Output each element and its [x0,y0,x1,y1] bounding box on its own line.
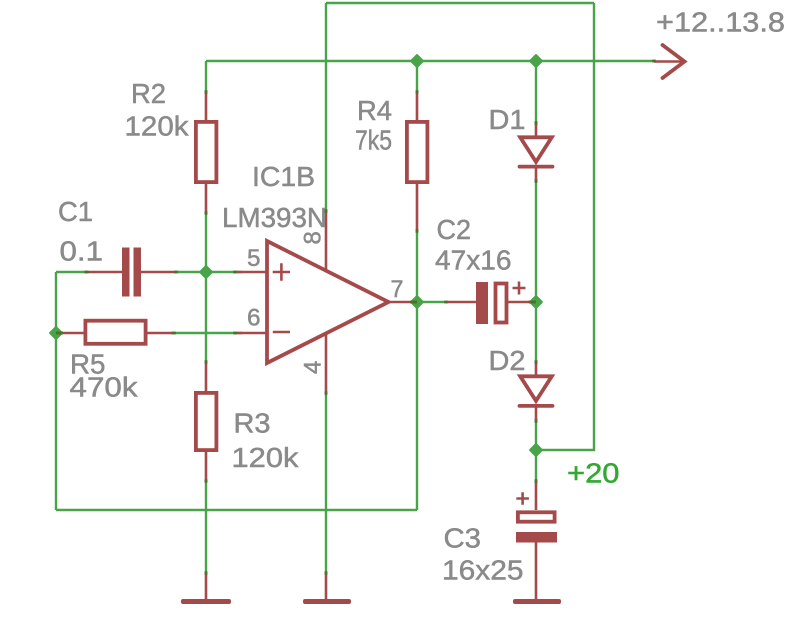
overlap dot C1 left pin end [85,271,89,274]
svg-text:5: 5 [247,245,261,272]
wire output node down to bottom wire [416,302,418,510]
svg-text:R4: R4 [357,95,392,126]
wire bottom feedback horizontal y=510 [56,509,417,511]
overlap band pin7 lead over junction [410,301,417,304]
ground symbol under R3 [205,573,208,600]
svg-text:6: 6 [247,305,261,332]
wire D2 bottom to +20 node [535,420,537,450]
svg-text:470k: 470k [70,372,139,403]
op-amp pin 6 lead [235,332,266,335]
junction node rail D1 [530,55,541,66]
svg-text:D1: D1 [489,104,526,135]
svg-text:8: 8 [300,231,327,244]
svg-text:47x16: 47x16 [435,245,512,276]
svg-text:C2: C2 [437,214,472,245]
capacitor C1 [87,271,175,274]
op-amp pin 8 lead [325,211,328,272]
wire C2 right to D node [528,301,536,303]
supply arrow +12..13.8 [654,60,684,63]
svg-text:120k: 120k [125,111,190,142]
wire R3 bottom to ground [205,481,207,574]
wire R4 top green segment [416,61,418,93]
wire C1 left to left vertical [56,271,86,273]
svg-text:7k5: 7k5 [355,125,392,156]
wire R4 bottom to output node [416,229,418,302]
wire R5 right lead to op-amp pin 6 [171,332,242,334]
wire D1 top green segment [535,61,537,124]
overlap band C2 lead over junction [529,301,536,304]
op-amp pin 7 lead [386,301,413,304]
junction node R2/C1/pin5 [200,266,211,277]
op-amp plus marking [273,263,290,281]
wire D1 bottom to C2 node [535,180,537,302]
svg-text:IC1B: IC1B [252,161,315,192]
overlap band R5 lead over junction [56,332,63,335]
junction node rail R4 [411,55,422,66]
svg-text:7: 7 [391,276,404,303]
svg-text:C1: C1 [58,196,93,227]
svg-text:C3: C3 [444,523,482,554]
junction node left R5 [50,327,61,338]
op-amp pin 5 lead [235,271,266,274]
wire +20 node down to C3 [535,450,537,483]
wire op-amp pin 4 to ground [325,393,327,574]
junction node +20 [530,444,541,455]
plus marking (C2) [513,282,526,295]
junction node output [411,296,422,307]
svg-text:LM393N: LM393N [222,202,327,233]
svg-text:4: 4 [300,361,327,374]
op-amp pin 4 lead [325,333,328,394]
resistor R4 [416,91,419,231]
op-amp IC1B [267,241,389,363]
wire node A to op-amp pin 5 [175,271,242,273]
svg-text:D2: D2 [489,345,526,376]
wire R2 top green segment [205,61,207,93]
svg-text:+20: +20 [567,458,620,489]
wire R2 bottom to node A [205,213,207,272]
capacitor C3 [535,481,538,601]
wire top horizontal from left vertical to right vertical [326,2,594,4]
wire right side vertical x=594 down then left to +20 node [540,3,594,450]
resistor R5 [57,332,174,335]
plus marking (C3) [516,492,529,505]
capacitor C2 [446,301,529,304]
wire left vertical x=56 down to bottom wire [55,272,57,510]
diode D2 [535,361,538,421]
wire supply rail y=61 [206,60,655,62]
svg-text:R2: R2 [131,78,166,109]
wire node A down to R3 [205,272,207,362]
resistor R2 [205,91,208,214]
resistor R3 [205,361,208,482]
svg-text:+12..13.8: +12..13.8 [656,7,785,38]
wire output node to C2 [417,301,447,303]
svg-text:R3: R3 [234,408,271,439]
wire C2 node down to D2 [535,302,537,363]
svg-text:120k: 120k [232,442,300,473]
svg-text:16x25: 16x25 [442,555,524,586]
ground symbol under op-amp pin 4 [325,573,328,600]
junction node C2/D1/D2 [530,296,541,307]
svg-text:0.1: 0.1 [60,236,104,267]
ground symbol under C3 [513,599,561,604]
pin connection points (dark dots) [172,61,656,575]
diode D1 [535,122,538,182]
op-amp minus marking [273,331,290,334]
wire vertical left branch x=326 from top wire down to op-amp pin 8 [325,3,327,212]
